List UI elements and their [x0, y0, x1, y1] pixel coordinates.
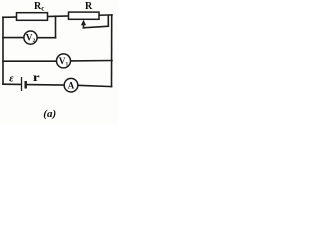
- svg-text:(a): (a): [43, 108, 56, 120]
- svg-text:r: r: [33, 71, 40, 84]
- svg-text:R: R: [85, 1, 93, 12]
- svg-text:ε: ε: [9, 73, 14, 84]
- svg-text:A: A: [68, 80, 75, 90]
